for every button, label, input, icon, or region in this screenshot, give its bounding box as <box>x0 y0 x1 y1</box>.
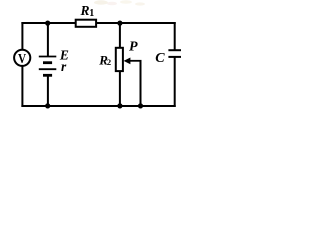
wire: top horizontal <box>21 22 175 24</box>
wire: right branch vertical top (to capacitor) <box>174 22 176 50</box>
svg-text:r: r <box>61 59 67 74</box>
potentiometer wiper arrow head <box>124 58 131 65</box>
battery E,r : plate long thin 1 <box>39 56 57 58</box>
wire: R2 branch vertical <box>119 22 121 107</box>
wire: wiper vertical to bottom <box>140 61 142 107</box>
junction node: battery top <box>45 21 50 26</box>
wire: battery branch vertical bottom <box>47 75 49 107</box>
svg-text:C: C <box>155 51 165 66</box>
resistor R1 box <box>76 20 96 27</box>
svg-text:1: 1 <box>89 8 94 19</box>
junction node: wiper bottom <box>138 103 143 108</box>
battery plate long thin 2 <box>39 68 57 70</box>
wire: wiper horizontal tail <box>130 60 142 62</box>
wire: left branch vertical (voltmeter branch) <box>21 22 23 107</box>
wire: battery branch vertical top <box>47 22 49 57</box>
battery plate short thick 1 <box>43 61 52 64</box>
svg-text:V: V <box>18 51 26 66</box>
junction node: R2 top <box>117 21 122 26</box>
junction node: R2 bottom <box>117 103 122 108</box>
battery plate short thick 2 <box>43 74 52 77</box>
svg-text:2: 2 <box>107 57 111 67</box>
capacitor C top plate <box>168 49 181 51</box>
potentiometer R2 box <box>116 48 123 71</box>
svg-text:R: R <box>80 3 90 18</box>
junction node: battery bottom <box>45 103 50 108</box>
wire: bottom horizontal <box>21 105 175 107</box>
capacitor C bottom plate <box>168 56 181 58</box>
wire: right branch vertical bottom (from capacitor) <box>174 57 176 107</box>
voltmeter V <box>14 50 30 66</box>
svg-text:P: P <box>129 39 138 54</box>
